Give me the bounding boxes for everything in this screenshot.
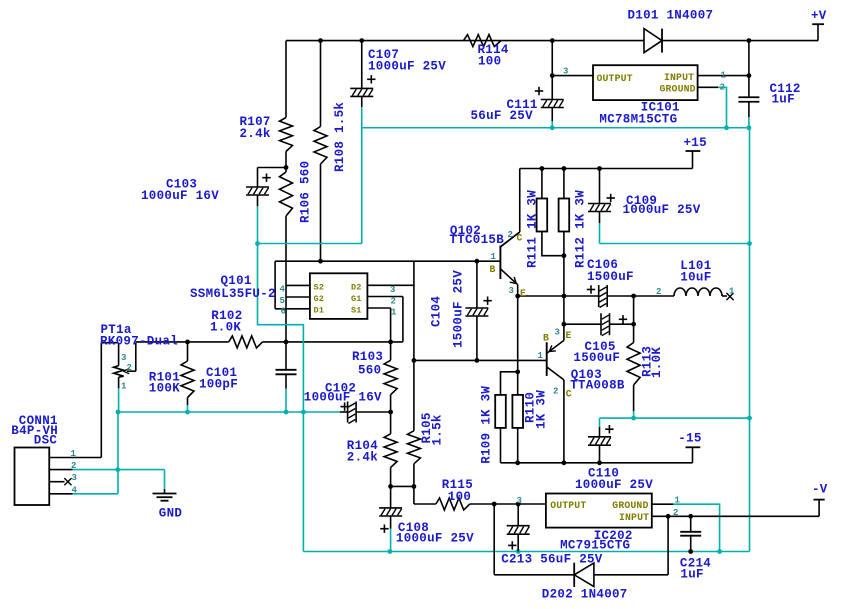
svg-text:R108 1.5k: R108 1.5k (333, 102, 347, 172)
svg-text:2: 2 (391, 296, 396, 306)
svg-text:B: B (543, 333, 549, 344)
svg-text:3: 3 (563, 67, 568, 77)
svg-text:1: 1 (538, 351, 544, 361)
svg-text:C: C (517, 233, 523, 244)
svg-text:1K 3W: 1K 3W (535, 390, 549, 429)
svg-text:1uF: 1uF (680, 568, 703, 582)
svg-text:TTA008B: TTA008B (570, 379, 625, 393)
svg-text:100K: 100K (149, 381, 180, 395)
svg-text:560: 560 (358, 363, 381, 377)
svg-text:R103: R103 (352, 350, 383, 364)
svg-text:1: 1 (729, 287, 735, 297)
svg-text:100: 100 (478, 55, 501, 69)
svg-text:3: 3 (390, 285, 395, 295)
svg-text:1000uF 25V: 1000uF 25V (368, 60, 446, 74)
svg-text:3: 3 (72, 473, 77, 483)
svg-text:S1: S1 (351, 305, 362, 315)
svg-text:Q101: Q101 (221, 274, 252, 288)
svg-text:RK097-Dual: RK097-Dual (100, 334, 178, 348)
svg-text:2: 2 (673, 508, 678, 518)
svg-text:D2: D2 (351, 282, 362, 292)
svg-text:GND: GND (159, 507, 183, 521)
svg-text:2.4k: 2.4k (240, 127, 271, 141)
svg-text:E: E (520, 288, 526, 299)
svg-text:C: C (566, 389, 572, 400)
svg-text:+V: +V (811, 9, 827, 23)
svg-text:R111 1K 3W: R111 1K 3W (526, 190, 540, 268)
svg-text:1: 1 (721, 71, 727, 81)
svg-text:G2: G2 (314, 294, 325, 304)
svg-text:3: 3 (121, 353, 126, 363)
svg-text:GROUND: GROUND (660, 83, 696, 94)
svg-text:R109 1K 3W: R109 1K 3W (480, 386, 494, 464)
svg-text:100: 100 (448, 490, 471, 504)
svg-text:D202 1N4007: D202 1N4007 (542, 588, 628, 602)
svg-text:D1: D1 (314, 305, 325, 315)
svg-text:R112 1K 3W: R112 1K 3W (574, 190, 588, 268)
svg-text:B: B (490, 264, 496, 275)
svg-text:-V: -V (812, 483, 828, 497)
svg-text:GROUND: GROUND (612, 500, 648, 511)
svg-text:2: 2 (720, 83, 725, 93)
svg-text:1500uF: 1500uF (587, 270, 634, 284)
svg-text:1000uF 16V: 1000uF 16V (141, 189, 219, 203)
svg-text:56uF 25V: 56uF 25V (471, 109, 534, 123)
svg-text:2.4k: 2.4k (347, 451, 378, 465)
svg-text:5: 5 (280, 296, 285, 306)
svg-text:3: 3 (517, 496, 522, 506)
svg-text:1: 1 (391, 308, 397, 318)
svg-text:+15: +15 (684, 136, 707, 150)
svg-text:2: 2 (508, 230, 513, 240)
svg-text:-15: -15 (678, 432, 701, 446)
svg-text:6: 6 (281, 307, 286, 317)
svg-text:4: 4 (280, 284, 286, 294)
svg-text:1.0K: 1.0K (210, 320, 241, 334)
svg-text:4: 4 (72, 485, 78, 495)
svg-text:DSC: DSC (34, 434, 58, 448)
svg-text:3: 3 (509, 286, 514, 296)
svg-text:C104: C104 (430, 296, 444, 327)
svg-text:1: 1 (121, 381, 127, 391)
svg-text:1000uF 25V: 1000uF 25V (575, 478, 653, 492)
svg-text:E: E (566, 330, 572, 341)
svg-text:TTC015B: TTC015B (449, 233, 504, 247)
svg-text:MC7915CTG: MC7915CTG (560, 538, 630, 552)
svg-text:OUTPUT: OUTPUT (550, 500, 586, 511)
svg-text:1: 1 (491, 252, 497, 262)
svg-text:C213 56uF 25V: C213 56uF 25V (501, 552, 603, 566)
svg-text:2: 2 (71, 461, 76, 471)
svg-text:MC78M15CTG: MC78M15CTG (599, 112, 677, 126)
svg-text:1uF: 1uF (772, 92, 795, 106)
svg-text:100pF: 100pF (199, 378, 238, 392)
svg-text:INPUT: INPUT (619, 512, 649, 523)
svg-text:1000uF 25V: 1000uF 25V (623, 203, 701, 217)
svg-text:1.5k: 1.5k (430, 414, 444, 445)
svg-text:3: 3 (555, 328, 560, 338)
svg-text:2: 2 (656, 287, 661, 297)
svg-text:1000uF 16V: 1000uF 16V (304, 390, 382, 404)
svg-text:D101 1N4007: D101 1N4007 (628, 8, 714, 22)
svg-text:2: 2 (127, 363, 132, 373)
svg-text:OUTPUT: OUTPUT (597, 73, 633, 84)
svg-text:SSM6L35FU-2: SSM6L35FU-2 (190, 287, 276, 301)
svg-text:1000uF 25V: 1000uF 25V (396, 532, 474, 546)
svg-text:1500uF 25V: 1500uF 25V (452, 270, 466, 348)
svg-text:S2: S2 (314, 282, 325, 292)
svg-text:INPUT: INPUT (664, 72, 694, 83)
svg-text:1.0K: 1.0K (650, 347, 664, 378)
svg-text:1: 1 (675, 496, 681, 506)
svg-text:G1: G1 (351, 294, 362, 304)
svg-text:2: 2 (553, 386, 558, 396)
svg-text:1500uF: 1500uF (573, 351, 620, 365)
svg-text:R106 560: R106 560 (299, 161, 313, 223)
svg-text:1: 1 (71, 449, 77, 459)
svg-text:10uF: 10uF (680, 270, 711, 284)
